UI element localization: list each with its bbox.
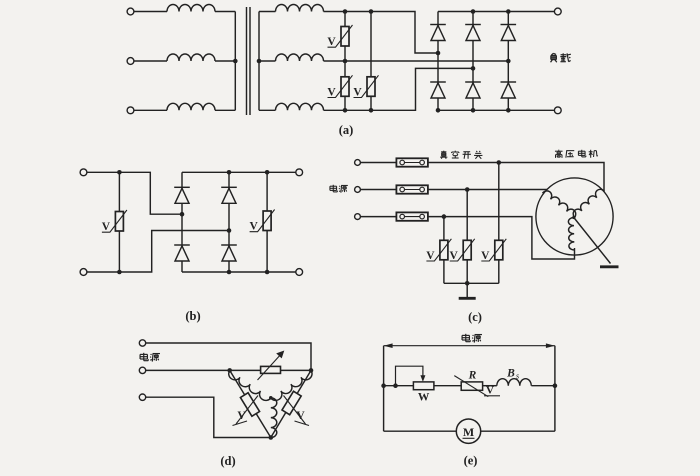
- label R of varistor: [468, 370, 477, 382]
- node bridge left mid tap: [180, 212, 185, 217]
- varistor V9 arrow: [258, 351, 285, 381]
- node bridge right mid tap: [227, 228, 232, 233]
- motor winding chain right: [271, 370, 315, 402]
- transformer primary winding L2: [167, 54, 215, 61]
- wire secondary bus to winding L5: [259, 60, 276, 62]
- label V of varistor V6: [426, 250, 435, 262]
- varistor V3: [354, 75, 379, 97]
- varistor V2: [328, 75, 353, 97]
- label gaoya dianji (HV motor): [555, 150, 598, 158]
- varistor V5 output: [250, 210, 275, 232]
- svg-text:M: M: [463, 425, 474, 439]
- wire delta right side: [271, 370, 311, 437]
- varistor R body: [461, 382, 482, 390]
- label M of motor: [463, 425, 475, 439]
- wire input top rail: [87, 172, 182, 214]
- node wiper branch: [393, 383, 398, 388]
- part (a) output terminal plus: [554, 8, 561, 15]
- wire phase C to motor: [428, 217, 575, 259]
- bridge arm2 wire: [472, 12, 474, 111]
- wire primary L2 to star point: [215, 60, 235, 62]
- label (b): [185, 309, 200, 323]
- wire varistor to inductor: [483, 385, 497, 387]
- node bridge arm2 mid tap: [471, 66, 476, 71]
- svg-text:(a): (a): [339, 123, 354, 137]
- wire pot to varistor: [434, 385, 461, 387]
- transformer core line right: [249, 7, 251, 115]
- part (c) terminal phase A: [355, 160, 361, 166]
- node (b) bottom bus right arm: [227, 270, 232, 275]
- wire bottom row left: [384, 430, 457, 432]
- potentiometer W wiper: [396, 366, 426, 386]
- diode D7 top: [174, 187, 190, 203]
- vacuum switch S1 with lead: [360, 158, 428, 166]
- varistor V8: [481, 239, 506, 261]
- part (b) terminal output top: [296, 169, 303, 176]
- node varistor bus center: [465, 281, 470, 286]
- vacuum switch S3 with lead: [360, 212, 428, 220]
- motor frame earth lead: [574, 218, 611, 264]
- label V of varistor V5: [249, 221, 258, 233]
- svg-text:R: R: [468, 370, 477, 382]
- varistor V9 top: [261, 366, 281, 373]
- node input varistor tap top: [117, 170, 122, 175]
- wire secondary bus to winding L4: [259, 11, 276, 13]
- label dianyuan (power) part d: [140, 353, 160, 362]
- node top bus arm2: [471, 9, 476, 14]
- label V of varistor V7: [450, 250, 459, 262]
- label (c): [468, 310, 482, 324]
- wire phase B to motor: [428, 189, 547, 191]
- node phase B varistor tap: [465, 187, 470, 192]
- svg-text:B: B: [506, 368, 515, 380]
- part (a) output terminal minus: [554, 107, 561, 114]
- transformer secondary winding L6: [276, 103, 324, 110]
- svg-text:s: s: [516, 372, 519, 381]
- label V of varistor V10: [237, 410, 246, 422]
- wire delta top side: [230, 369, 311, 371]
- motor M1 stator circle: [536, 178, 613, 255]
- svg-text:V: V: [481, 250, 490, 262]
- node (b) top bus varistor: [265, 170, 270, 175]
- vacuum switch S2 with lead: [360, 185, 428, 193]
- diode D9 bottom: [174, 245, 190, 261]
- varistor V4 input: [102, 210, 127, 232]
- node (b) bottom bus varistor: [265, 270, 270, 275]
- wire varistor V8 branch: [498, 163, 500, 284]
- label (a): [339, 123, 354, 137]
- svg-text:V: V: [327, 87, 336, 99]
- node row1 varistor tap V3: [369, 9, 374, 14]
- bridge (b) arm2 wire: [228, 172, 230, 272]
- bridge arm3 wire: [507, 12, 509, 111]
- node bottom bus arm3: [506, 108, 511, 113]
- svg-text:V: V: [296, 410, 305, 422]
- wire secondary bus to winding L6: [259, 109, 276, 111]
- potentiometer W body: [413, 382, 434, 390]
- svg-text:(e): (e): [464, 454, 478, 468]
- node bridge arm1 mid tap: [436, 51, 441, 56]
- diode D5 bottom: [465, 82, 481, 98]
- diode D4 bottom: [430, 82, 446, 98]
- label V of varistor V1: [327, 36, 336, 48]
- label W of potentiometer: [418, 392, 430, 404]
- transformer secondary winding L5: [276, 54, 324, 61]
- wire left rail: [383, 346, 385, 432]
- node bridge arm3 mid tap: [506, 59, 511, 64]
- svg-text:W: W: [418, 392, 430, 404]
- motor winding chain middle: [271, 398, 277, 438]
- part (a) terminal input phase 2: [127, 58, 134, 65]
- wire phase2 to left vertex: [146, 369, 230, 371]
- part (d) terminal phase 1: [139, 340, 145, 346]
- varistor common bus wire: [444, 282, 499, 284]
- node bottom vertex: [269, 435, 274, 440]
- wire phase2 terminal to primary winding: [134, 60, 167, 62]
- motor M2 circle: [456, 419, 480, 443]
- wire phase1 to right vertex: [146, 343, 311, 370]
- motor winding phase A chain: [571, 187, 604, 217]
- wire phase A to motor: [428, 163, 604, 192]
- node phase A varistor tap: [497, 160, 502, 165]
- part (c) terminal phase C: [355, 214, 361, 220]
- bridge bottom bus wire: [438, 109, 555, 111]
- wire input bottom rail: [87, 231, 229, 273]
- svg-text:(d): (d): [220, 454, 235, 468]
- diode D6 bottom: [501, 82, 517, 98]
- wire inductor to right rail: [531, 385, 555, 387]
- part (a) terminal input phase 1: [127, 8, 134, 15]
- node secondary star junction: [257, 59, 262, 64]
- wire phase1 terminal to primary winding: [134, 11, 167, 13]
- node row3 varistor tap V3b: [369, 108, 374, 113]
- ground of varistor bus: [459, 283, 476, 298]
- node mid row right rail: [553, 383, 558, 388]
- svg-text:(c): (c): [468, 310, 482, 324]
- power span dimension line: [384, 343, 555, 348]
- wire delta left side: [230, 370, 271, 437]
- svg-text:V: V: [353, 87, 362, 99]
- node left vertex: [227, 368, 232, 373]
- svg-text:V: V: [450, 250, 459, 262]
- ground of motor frame: [600, 265, 619, 268]
- label V of varistor R: [486, 385, 494, 397]
- part (b) terminal input bottom: [80, 269, 87, 276]
- part (d) terminal phase 2: [139, 367, 145, 373]
- primary star bus wire: [234, 12, 236, 111]
- node (b) top bus right arm: [227, 170, 232, 175]
- node top bus arm3: [506, 9, 511, 14]
- part (b) terminal output bottom: [296, 269, 303, 276]
- node motor star point: [572, 216, 575, 219]
- part (b) terminal input top: [80, 169, 87, 176]
- node row3 varistor tap V2: [343, 108, 348, 113]
- label V of varistor V3: [353, 87, 362, 99]
- wire phase3 terminal to primary winding: [134, 109, 167, 111]
- label fuzai (load): [551, 53, 571, 62]
- node row2 varistor tap: [343, 59, 348, 64]
- svg-text:V: V: [426, 250, 435, 262]
- varistor V6: [426, 239, 451, 261]
- wire secondary row1 to bridge: [324, 12, 439, 54]
- secondary star bus wire: [258, 12, 260, 111]
- node winding star point: [269, 396, 273, 400]
- wire mid row left: [384, 385, 414, 387]
- part (c) terminal phase B: [355, 187, 361, 193]
- node mid row left rail: [381, 383, 386, 388]
- transformer core line left: [246, 7, 248, 115]
- svg-text:V: V: [102, 221, 111, 233]
- varistor R stroke: [454, 376, 500, 397]
- label (e): [464, 454, 478, 468]
- wire varistor V1 branch: [344, 12, 346, 62]
- motor winding phase C chain: [568, 217, 574, 250]
- node bottom bus arm2: [471, 108, 476, 113]
- node right vertex: [309, 368, 314, 373]
- node primary star junction: [233, 59, 238, 64]
- wire phase3 to bottom vertex: [146, 397, 271, 437]
- node input varistor tap bottom: [117, 270, 122, 275]
- diode D10 bottom: [221, 245, 237, 261]
- label V of varistor V11: [296, 410, 305, 422]
- bridge (b) top bus wire: [182, 171, 296, 173]
- wire input varistor branch: [118, 172, 120, 272]
- diode D8 top: [221, 187, 237, 203]
- varistor V11 right: [282, 391, 309, 425]
- svg-text:V: V: [237, 410, 246, 422]
- node bottom bus arm1: [436, 108, 441, 113]
- varistor V1: [328, 25, 353, 47]
- label zhenkong kaiguan (vacuum switch): [440, 151, 482, 159]
- varistor V10 left: [233, 393, 260, 426]
- diode D2 top: [465, 25, 481, 41]
- wire primary L3 to star point: [215, 109, 235, 111]
- part (d) terminal phase 3: [139, 394, 145, 400]
- transformer primary winding L3: [167, 103, 215, 110]
- node row1 varistor tap V1: [343, 9, 348, 14]
- svg-text:V: V: [327, 36, 336, 48]
- label V of varistor V4: [102, 221, 111, 233]
- node phase C varistor tap: [442, 214, 447, 219]
- wire varistor V2 branch: [344, 61, 346, 110]
- varistor V7: [450, 239, 475, 261]
- part (a) terminal input phase 3: [127, 107, 134, 114]
- bridge top bus wire: [438, 11, 555, 13]
- diode D1 top: [430, 25, 446, 41]
- svg-text:V: V: [249, 221, 258, 233]
- svg-text:(b): (b): [185, 309, 200, 323]
- label V of varistor V2: [327, 87, 336, 99]
- bridge (b) arm1 wire: [181, 172, 183, 272]
- label dianyuan (power) part e: [462, 334, 482, 343]
- transformer secondary winding L4: [276, 5, 324, 12]
- diode D3 top: [501, 25, 517, 41]
- wire output varistor branch: [266, 172, 268, 272]
- wire bottom row right: [481, 430, 555, 432]
- wire primary L1 to star point: [215, 11, 235, 13]
- wire varistor V3 branch: [370, 12, 372, 111]
- label V of varistor V8: [481, 250, 490, 262]
- inductor Bs: [497, 379, 532, 386]
- wire varistor V6 branch: [443, 217, 445, 284]
- label Bs of inductor: [506, 368, 519, 381]
- wire secondary row3 to bridge: [324, 68, 474, 110]
- bridge arm1 wire: [437, 12, 439, 111]
- transformer primary winding L1: [167, 5, 215, 12]
- wire varistor V7 branch: [466, 190, 468, 284]
- motor winding phase B chain: [543, 189, 578, 218]
- wire right rail: [554, 346, 556, 432]
- label dianyuan (power) part c: [330, 185, 348, 193]
- label (d): [220, 454, 235, 468]
- motor winding chain left: [226, 370, 270, 402]
- bridge (b) bottom bus wire: [182, 271, 296, 273]
- wire secondary row2 to bridge: [324, 60, 509, 62]
